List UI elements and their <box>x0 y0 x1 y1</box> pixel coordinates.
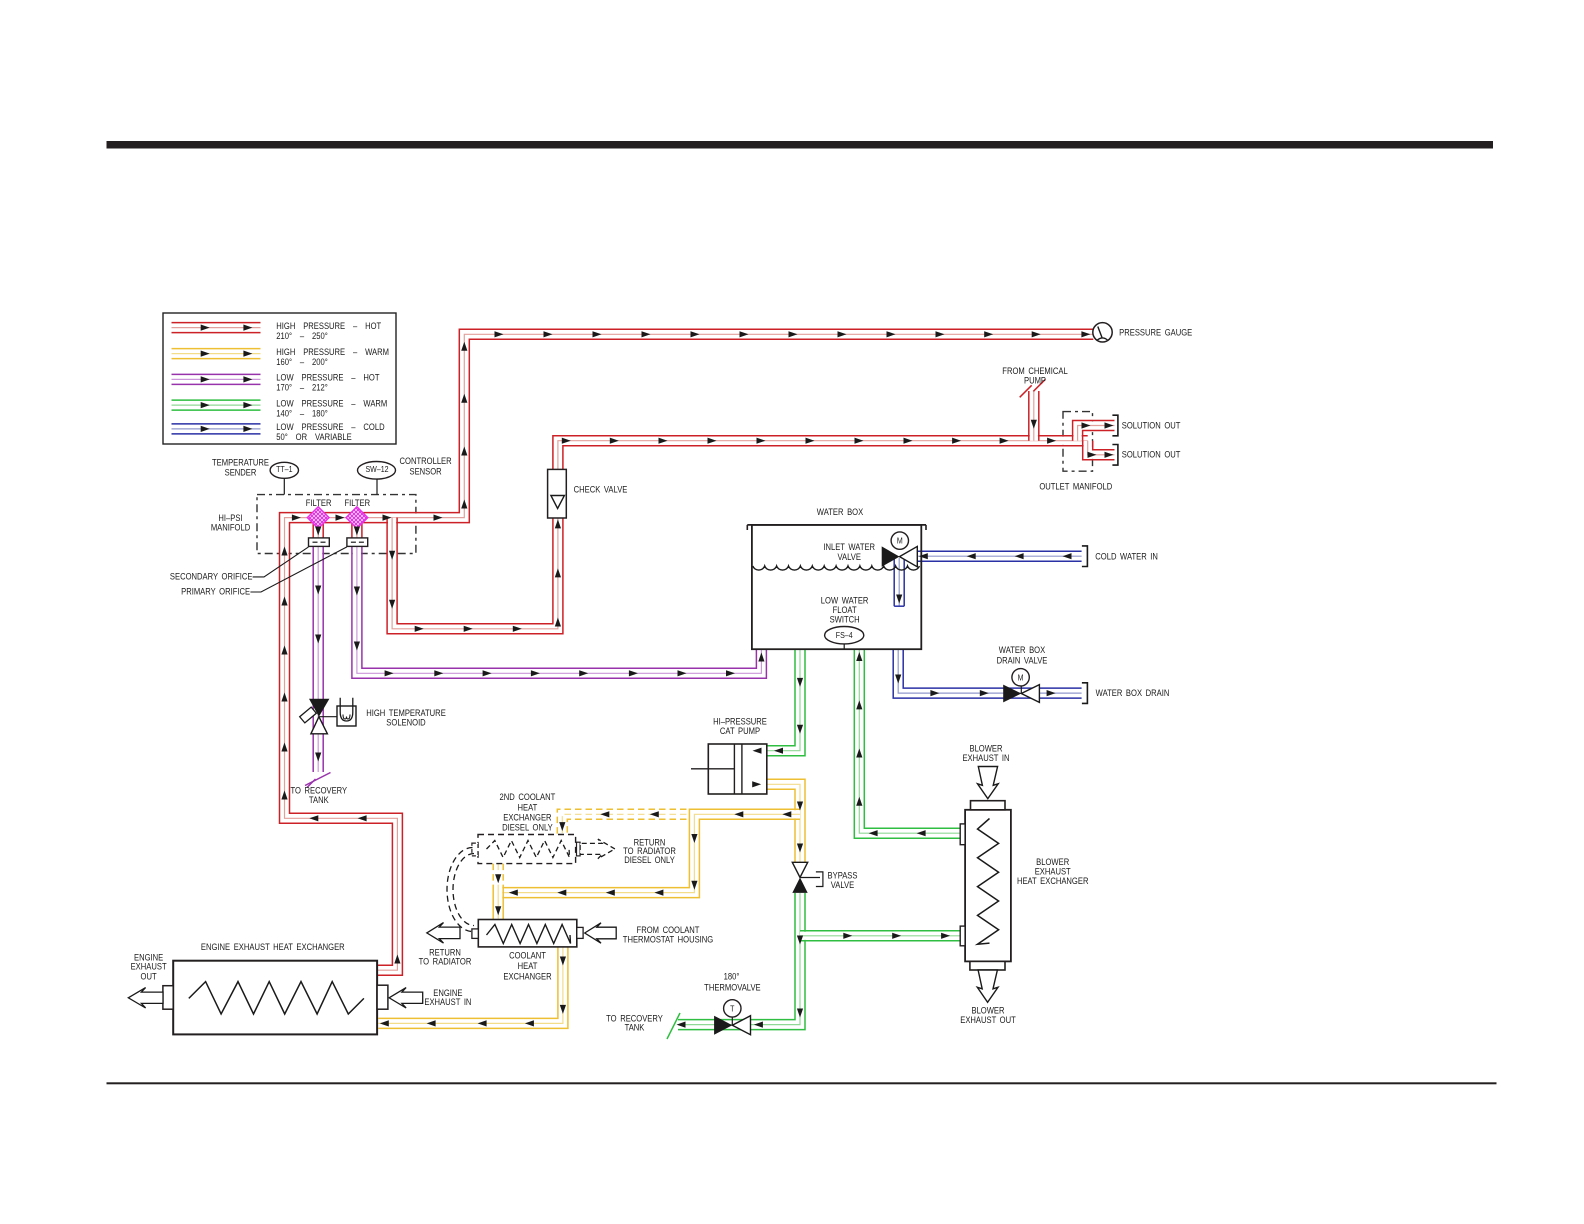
svg-text:CHECK VALVE: CHECK VALVE <box>574 484 628 495</box>
return to radiator diesel only dashed arrow <box>580 839 615 859</box>
svg-text:140° – 180°: 140° – 180° <box>276 408 327 419</box>
svg-text:PUMP: PUMP <box>1024 375 1046 386</box>
label blower exhaust heat exchanger <box>1017 856 1089 886</box>
label to recovery tank purple <box>290 785 347 805</box>
coolant heat exchanger <box>472 920 583 947</box>
svg-text:ENGINE EXHAUST HEAT EXCHANGER: ENGINE EXHAUST HEAT EXCHANGER <box>201 941 345 952</box>
label inlet water valve <box>823 541 875 562</box>
filter diamond 2 <box>346 507 368 529</box>
label blower exhaust in <box>962 743 1009 763</box>
svg-text:210° – 250°: 210° – 250° <box>276 330 327 341</box>
pipe red filter 2 to primary orifice stub <box>352 521 362 539</box>
svg-text:HEAT EXCHANGER: HEAT EXCHANGER <box>1017 875 1089 886</box>
label filter 2 <box>344 497 370 508</box>
pipe yellow coolant HX to engine exhaust HX <box>378 947 568 1029</box>
label outlet manifold <box>1039 481 1112 492</box>
legend sample high pressure warm <box>172 349 261 359</box>
svg-text:SWITCH: SWITCH <box>830 614 860 625</box>
engine exhaust out arrow <box>128 988 163 1008</box>
engine exhaust in arrow <box>389 988 423 1008</box>
svg-text:SENDER: SENDER <box>225 467 257 478</box>
pipe blue water box drain <box>893 649 1081 698</box>
label cold water in <box>1095 551 1158 562</box>
blower exhaust heat exchanger <box>960 801 1011 970</box>
water box drain valve motor <box>1020 686 1022 694</box>
svg-text:EXHAUST IN: EXHAUST IN <box>424 996 471 1007</box>
orifice leader lines <box>250 547 347 592</box>
label check valve <box>574 484 628 495</box>
svg-text:COLD WATER IN: COLD WATER IN <box>1095 551 1158 562</box>
svg-text:TT–1: TT–1 <box>276 464 292 474</box>
pipe red branch: manifold tee to check valve to outlet manifold <box>387 436 1088 634</box>
svg-text:EXCHANGER: EXCHANGER <box>503 971 551 982</box>
label from coolant thermostat housing <box>623 924 713 944</box>
pipe red outlet lower branch to solution out <box>1083 441 1115 460</box>
svg-text:VALVE: VALVE <box>837 551 861 562</box>
inlet water valve motor <box>891 532 908 549</box>
check valve <box>548 469 567 518</box>
label engine exhaust in <box>424 987 471 1007</box>
blower exhaust in funnel arrow <box>978 767 999 799</box>
engine exhaust heat exchanger <box>163 961 388 1035</box>
solution out bracket upper <box>1112 415 1118 436</box>
pipe green bypass valve to thermovalve to recovery tank <box>678 893 805 1030</box>
pipe red main: engine exhaust HX to HI-PSI manifold to pressure gauge <box>280 329 1094 975</box>
blower exhaust out funnel arrow <box>977 970 998 1002</box>
svg-text:SECONDARY ORIFICE: SECONDARY ORIFICE <box>170 571 253 582</box>
green recovery line break symbol <box>667 1013 680 1039</box>
legend text low pressure hot <box>276 372 379 393</box>
pipe yellow into coolant HX <box>493 888 503 920</box>
svg-text:180°: 180° <box>724 971 740 982</box>
chemical pump line break symbol <box>1020 379 1046 397</box>
svg-text:170° – 212°: 170° – 212° <box>276 382 327 393</box>
svg-text:WATER BOX: WATER BOX <box>817 506 864 517</box>
label engine exhaust heat exchanger <box>201 941 345 952</box>
svg-text:EXHAUST IN: EXHAUST IN <box>962 752 1009 763</box>
svg-text:WATER BOX: WATER BOX <box>999 644 1046 655</box>
purple recovery line break symbol <box>305 773 331 788</box>
HI-PSI manifold dashed box <box>257 495 416 554</box>
label controller sensor <box>400 455 452 476</box>
svg-text:VALVE: VALVE <box>831 879 855 890</box>
svg-text:160° – 200°: 160° – 200° <box>276 356 327 367</box>
pipe green water box to cat pump <box>767 649 805 756</box>
legend sample low pressure warm <box>172 400 261 410</box>
bottom rule line <box>107 1082 1497 1084</box>
label from chemical pump <box>1002 365 1068 385</box>
label engine exhaust out <box>131 952 167 982</box>
thermovalve T sensor <box>731 1017 733 1025</box>
svg-text:CONTROLLER: CONTROLLER <box>400 455 452 466</box>
label temperature sender <box>212 457 269 478</box>
label hi-pressure cat pump <box>713 716 767 737</box>
cold water in bracket <box>1082 546 1088 567</box>
pipe red outlet upper branch to solution out <box>1073 421 1115 441</box>
pipe yellow branch to coolant heat exchanger <box>498 809 800 897</box>
180 thermovalve <box>714 1016 732 1035</box>
label primary orifice <box>181 586 250 597</box>
svg-text:OUTLET MANIFOLD: OUTLET MANIFOLD <box>1039 481 1112 492</box>
water box drain valve <box>1003 685 1021 703</box>
svg-text:SOLUTION OUT: SOLUTION OUT <box>1122 449 1181 460</box>
label secondary orifice <box>170 571 253 582</box>
legend sample low pressure cold <box>172 424 261 434</box>
label blower exhaust out <box>960 1005 1016 1025</box>
secondary orifice <box>309 538 330 547</box>
svg-text:FILTER: FILTER <box>344 497 370 508</box>
label bypass valve <box>828 870 858 890</box>
svg-text:WATER BOX DRAIN: WATER BOX DRAIN <box>1096 687 1170 698</box>
legend text low pressure cold <box>276 421 384 442</box>
hi-pressure cat pump <box>691 744 767 794</box>
pipe yellow pump outlet to bypass valve <box>767 779 805 862</box>
svg-text:PRESSURE GAUGE: PRESSURE GAUGE <box>1119 327 1192 338</box>
label high temperature solenoid <box>366 707 446 727</box>
2nd coolant heat exchanger dashed <box>472 835 580 864</box>
return to radiator arrow <box>427 923 460 944</box>
svg-text:THERMOVALVE: THERMOVALVE <box>704 982 761 993</box>
label 2nd coolant heat exchanger <box>500 791 556 832</box>
legend sample high pressure hot <box>172 323 261 333</box>
label water box drain <box>1096 687 1170 698</box>
label low water float switch <box>821 595 869 625</box>
svg-text:DRAIN VALVE: DRAIN VALVE <box>997 655 1048 666</box>
water box <box>747 525 926 649</box>
flow arrows <box>201 325 210 331</box>
pipe green blower exhaust HX outlet to water box <box>854 649 960 838</box>
top title bar <box>107 141 1494 149</box>
svg-text:MANIFOLD: MANIFOLD <box>211 522 250 533</box>
svg-text:50° OR VARIABLE: 50° OR VARIABLE <box>276 431 352 442</box>
label water box drain valve <box>997 644 1048 665</box>
inlet water valve <box>882 546 900 566</box>
svg-text:SENSOR: SENSOR <box>410 466 442 477</box>
svg-text:DIESEL ONLY: DIESEL ONLY <box>502 822 553 833</box>
pipe yellow dashed to 2nd coolant heat exchanger <box>557 809 697 834</box>
svg-text:PRIMARY ORIFICE: PRIMARY ORIFICE <box>181 586 250 597</box>
diesel bypass dashed arcs <box>447 848 474 932</box>
label solution out upper <box>1122 420 1181 431</box>
bypass valve <box>792 862 823 893</box>
from coolant thermostat housing arrow <box>585 923 617 943</box>
legend sample low pressure hot <box>172 374 261 384</box>
pipe red from chemical pump <box>1029 391 1039 441</box>
label solution out lower <box>1122 449 1181 460</box>
svg-text:COOLANT: COOLANT <box>509 950 546 961</box>
svg-text:OUT: OUT <box>141 971 157 982</box>
solution out bracket lower <box>1112 445 1118 466</box>
label return to radiator diesel only <box>623 837 676 865</box>
svg-text:TANK: TANK <box>309 794 329 805</box>
svg-text:SOLUTION OUT: SOLUTION OUT <box>1122 420 1181 431</box>
water box drain bracket <box>1082 683 1088 704</box>
svg-text:M: M <box>1018 673 1024 683</box>
legend text low pressure warm <box>276 398 387 419</box>
pipe yellow 2nd coolant HX outlet dashed <box>493 864 503 888</box>
label return to radiator <box>419 947 472 967</box>
legend text high pressure hot <box>276 320 381 341</box>
svg-text:FILTER: FILTER <box>306 497 332 508</box>
label pressure gauge <box>1119 327 1192 338</box>
label filter 1 <box>306 497 332 508</box>
pipe blue cold water in <box>918 551 1082 561</box>
label coolant heat exchanger <box>503 950 551 982</box>
legend box <box>163 313 396 444</box>
primary orifice <box>347 538 368 547</box>
svg-text:DIESEL ONLY: DIESEL ONLY <box>624 854 675 865</box>
label hi-psi manifold <box>211 512 250 533</box>
svg-text:FS–4: FS–4 <box>836 630 853 640</box>
filter diamond 1 <box>307 507 329 529</box>
svg-text:T: T <box>730 1004 734 1014</box>
pipe purple primary orifice to high temperature solenoid to recovery tank <box>313 546 323 772</box>
label to recovery tank green <box>606 1013 663 1033</box>
pipe green branch to blower exhaust HX inlet <box>800 931 960 941</box>
svg-text:TANK: TANK <box>625 1022 645 1033</box>
label 180 thermovalve <box>704 971 761 993</box>
label water box <box>817 506 864 517</box>
controller sensor SW-12 <box>358 462 396 495</box>
pipe red filter 1 to secondary orifice stub <box>313 521 323 539</box>
svg-text:EXHAUST OUT: EXHAUST OUT <box>960 1014 1016 1025</box>
svg-text:TO RADIATOR: TO RADIATOR <box>419 956 472 967</box>
pipe blue inlet stub inside water box <box>894 558 904 606</box>
svg-text:HEAT: HEAT <box>518 960 538 971</box>
svg-text:SW–12: SW–12 <box>365 464 388 474</box>
svg-text:SOLENOID: SOLENOID <box>386 717 425 728</box>
water box water line <box>753 566 920 570</box>
svg-text:CAT PUMP: CAT PUMP <box>720 725 760 736</box>
svg-text:M: M <box>897 536 903 546</box>
pipe purple secondary orifice to water box <box>352 546 767 678</box>
low water float switch FS-4 <box>825 627 864 650</box>
legend text high pressure warm <box>276 346 389 367</box>
svg-text:THERMOSTAT HOUSING: THERMOSTAT HOUSING <box>623 934 713 945</box>
high temperature solenoid valve <box>300 698 356 734</box>
temperature sender TT-1 <box>270 462 298 494</box>
outlet manifold dashed box <box>1063 412 1093 472</box>
inlet stub bottom cap <box>894 605 904 607</box>
pressure gauge <box>1093 323 1112 342</box>
